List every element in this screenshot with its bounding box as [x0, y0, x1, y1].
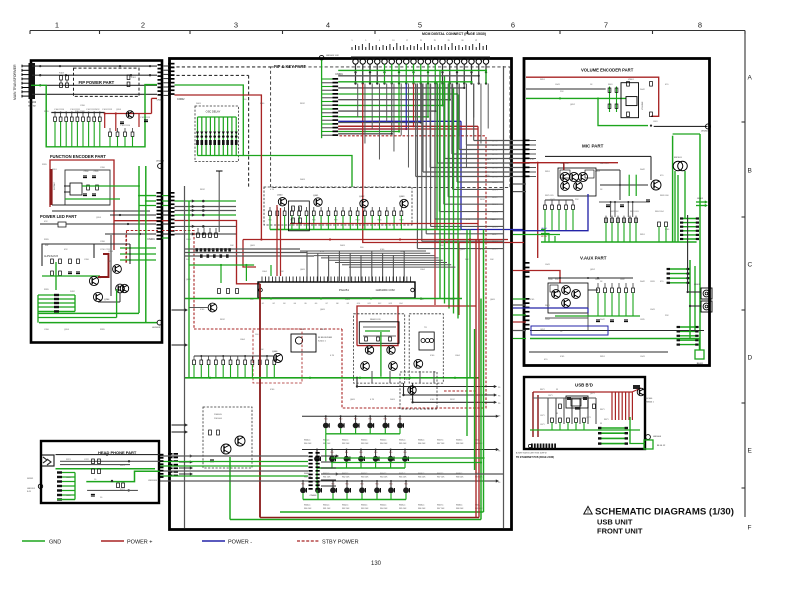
svg-text:VOLUME ENCODER PART: VOLUME ENCODER PART: [581, 68, 634, 73]
svg-text:Q606: Q606: [272, 351, 278, 353]
svg-text:R65 10K: R65 10K: [399, 443, 407, 445]
svg-text:STBY POWER: STBY POWER: [322, 540, 359, 546]
svg-text:S604-1: S604-1: [380, 440, 387, 442]
mic black bus: [545, 155, 651, 157]
svg-text:Q204: Q204: [116, 109, 122, 111]
svg-text:POWER -: POWER -: [228, 540, 252, 546]
svg-text:R626 C66: R626 C66: [660, 195, 669, 197]
svg-text:USB UNIT: USB UNIT: [597, 518, 633, 527]
function encoder red frame: [50, 160, 114, 250]
svg-text:FRONT UNIT: FRONT UNIT: [597, 527, 643, 536]
vaux green array lower: [677, 326, 699, 328]
cn603 connector duo: [309, 452, 313, 454]
svg-text:Q605: Q605: [490, 299, 496, 301]
encoder body dark red bar: [50, 169, 53, 205]
volume green wires: [526, 97, 626, 99]
svg-text:LED204: LED204: [156, 161, 165, 163]
red dashed box around ir: [253, 329, 302, 383]
svg-text:BE611: BE611: [697, 363, 704, 365]
svg-text:ROTARY: ROTARY: [53, 181, 56, 190]
svg-text:R205: R205: [100, 329, 106, 331]
svg-text:R612: R612: [480, 199, 486, 201]
green wire volume to right border: [673, 133, 700, 135]
main unit box border: [170, 59, 512, 530]
svg-text:Q605: Q605: [350, 399, 356, 401]
connector CN102 main transformer: [29, 63, 36, 99]
transistor pair Q201 Q202: [113, 265, 122, 274]
svg-text:10K: 10K: [440, 245, 444, 247]
mic resistor array stack: [680, 218, 699, 220]
svg-text:A 9099 9109G 1499 T93X 1099 W: A 9099 9109G 1499 T93X 1099 W: [516, 452, 547, 455]
svg-text:IR 06 12: IR 06 12: [657, 445, 666, 447]
long red rail bottom: [260, 517, 479, 519]
mic green corner wires bottom left: [541, 230, 545, 243]
gray vertical below osc: [218, 171, 220, 232]
svg-text:33: 33: [600, 423, 602, 425]
svg-text:D: D: [748, 355, 753, 362]
svg-text:R205: R205: [42, 164, 48, 166]
svg-text:VR601: VR601: [628, 79, 634, 81]
wire bundle to fip bar: [306, 251, 308, 281]
svg-text:R103: R103: [59, 73, 65, 75]
red bus upper key row: [290, 223, 478, 225]
resistor forest under key transistors: [269, 207, 271, 211]
svg-text:R64 10K: R64 10K: [380, 443, 388, 445]
svg-text:LED605 1-W: LED605 1-W: [326, 55, 339, 57]
svg-text:C635: C635: [640, 319, 645, 321]
svg-text:S603-1: S603-1: [361, 505, 368, 507]
vaux green array: [667, 268, 690, 270]
svg-text:R612: R612: [450, 399, 456, 401]
svg-text:2SB605: 2SB605: [214, 414, 223, 416]
headphone black wires top: [56, 454, 161, 456]
svg-text:Q605: Q605: [186, 279, 192, 281]
svg-text:OSC DELAY: OSC DELAY: [206, 110, 221, 114]
short drops from connector: [355, 64, 357, 83]
svg-text:Q671: Q671: [590, 393, 595, 395]
headphone resistors mid: [92, 459, 95, 464]
svg-text:TR: TR: [424, 327, 427, 329]
usb ic cluster: [566, 396, 588, 408]
svg-text:B-W B2: B-W B2: [28, 105, 36, 107]
svg-text:G5: G5: [304, 303, 306, 305]
svg-text:R60: R60: [375, 484, 378, 486]
svg-text:R60: R60: [330, 452, 333, 454]
bus left box to main box: [162, 195, 171, 197]
comb above top connector: [351, 47, 353, 50]
svg-text:R615: R615: [377, 220, 381, 222]
fip power resistor pairs left: [60, 76, 63, 81]
black wire to jacks: [687, 215, 689, 292]
svg-text:LED601: LED601: [701, 131, 710, 133]
svg-text:1K: 1K: [590, 84, 593, 86]
svg-text:Q605: Q605: [460, 249, 466, 251]
svg-text:P6: P6: [498, 482, 500, 484]
svg-text:R651: R651: [640, 234, 646, 236]
svg-text:G3: G3: [283, 303, 285, 305]
crossing red blue mid: [508, 242, 524, 244]
svg-text:LED201: LED201: [27, 488, 36, 490]
svg-text:CN603: CN603: [310, 495, 318, 497]
svg-text:Q605: Q605: [250, 245, 256, 247]
svg-text:17: 17: [406, 40, 408, 42]
headphone green main: [56, 468, 156, 470]
svg-text:R60: R60: [268, 220, 271, 222]
svg-text:SCHEMATIC DIAGRAMS (1/30): SCHEMATIC DIAGRAMS (1/30): [595, 507, 734, 518]
svg-text:FIP POWER PART: FIP POWER PART: [79, 80, 115, 85]
usb green cap: [644, 440, 653, 449]
svg-text:GND: GND: [49, 540, 61, 546]
blue long vertical and crossing: [461, 121, 524, 229]
svg-text:C205: C205: [94, 171, 100, 173]
svg-text:29: 29: [448, 40, 450, 42]
svg-text:S608-1: S608-1: [456, 440, 463, 442]
svg-text:47K: 47K: [96, 109, 100, 111]
headphone bottom wire: [87, 489, 138, 491]
svg-text:S600-1: S600-1: [304, 505, 311, 507]
svg-text:D603: D603: [486, 159, 492, 161]
caps under red bus: [120, 121, 124, 123]
svg-text:R60 10K: R60 10K: [304, 508, 312, 510]
svg-text:R68 10K: R68 10K: [456, 476, 464, 478]
svg-text:P6: P6: [498, 416, 500, 418]
svg-text:4: 4: [326, 21, 330, 30]
svg-text:REMOCON: REMOCON: [370, 319, 381, 321]
transistor Q607 lower left: [208, 303, 217, 312]
stby dashed loop mid: [194, 328, 342, 330]
crossing stubs band mic: [513, 162, 526, 164]
fan above fip bar: [300, 250, 426, 252]
usb green array stack: [598, 427, 628, 429]
svg-text:D603: D603: [345, 299, 351, 301]
green drop from volume part: [672, 136, 674, 242]
stby dashed into main box: [171, 231, 194, 330]
svg-text:R201: R201: [52, 169, 58, 171]
top connector circles: [353, 59, 358, 64]
green stubs CN601: [322, 78, 333, 80]
svg-text:10K: 10K: [465, 259, 469, 261]
left unit box border: [31, 61, 162, 343]
svg-text:R65 10K: R65 10K: [399, 476, 407, 478]
svg-text:D642: D642: [640, 169, 646, 171]
svg-text:Q204: Q204: [108, 251, 114, 253]
svg-text:R63 10K: R63 10K: [361, 443, 369, 445]
vaux black wires: [548, 277, 633, 279]
svg-text:R60: R60: [331, 484, 334, 486]
svg-text:R60: R60: [369, 419, 372, 421]
svg-text:VOLUME: VOLUME: [642, 101, 644, 110]
svg-text:D642: D642: [640, 281, 646, 283]
svg-text:D603: D603: [340, 245, 346, 247]
svg-text:R205: R205: [44, 111, 50, 113]
svg-text:R60: R60: [374, 452, 377, 454]
svg-text:R221: R221: [66, 459, 72, 461]
svg-text:IC60: IC60: [430, 355, 435, 357]
key transistor dashed box: [264, 187, 412, 225]
headphone jack symbol: [42, 455, 54, 466]
svg-text:R621 C61: R621 C61: [600, 163, 609, 165]
connector CN605 left edge bottom: [168, 453, 173, 455]
svg-text:R67 10K: R67 10K: [437, 476, 445, 478]
svg-text:R60: R60: [345, 452, 348, 454]
vaux extra caps: [596, 319, 600, 321]
svg-text:1K: 1K: [600, 281, 603, 283]
mic green bus: [541, 241, 697, 243]
mic right resistors: [658, 222, 661, 227]
usb bottom connector: [531, 444, 533, 449]
svg-text:2SB606 1: 2SB606 1: [645, 402, 655, 404]
svg-text:R67 10K: R67 10K: [437, 443, 445, 445]
svg-text:D603: D603: [196, 103, 202, 105]
green wires cn603 to risers: [331, 457, 484, 459]
vaux resistor cols: [597, 283, 599, 288]
usb green riser right: [630, 417, 645, 444]
red bus fip: [105, 113, 152, 115]
svg-text:S605-1: S605-1: [399, 440, 406, 442]
svg-text:R625 C65: R625 C65: [545, 195, 554, 197]
LED203: [157, 320, 162, 325]
svg-text:Q652: Q652: [595, 171, 601, 173]
mic ic cluster: [558, 168, 596, 196]
svg-text:R60: R60: [354, 419, 357, 421]
resistor forest fip mid: [54, 113, 56, 118]
svg-text:R612: R612: [355, 220, 359, 222]
vaux green risers right: [689, 260, 691, 339]
red box remocon: [357, 306, 476, 346]
svg-text:IC60: IC60: [200, 309, 205, 311]
svg-text:4.7K: 4.7K: [330, 355, 335, 357]
svg-text:MIC601: MIC601: [674, 157, 682, 159]
svg-text:Q601: Q601: [313, 195, 319, 197]
red verticals into bar region: [276, 205, 278, 276]
svg-text:10K: 10K: [490, 259, 494, 261]
green wire left edge to osc area: [175, 85, 353, 187]
svg-text:R60: R60: [404, 484, 407, 486]
svg-text:Q671: Q671: [586, 417, 591, 419]
red bus key row: [243, 239, 508, 241]
svg-text:A: A: [748, 75, 753, 82]
svg-text:10K: 10K: [230, 245, 234, 247]
green vertical from LED605: [321, 60, 323, 138]
svg-text:22K: 22K: [665, 315, 669, 317]
red riser up from remocon top: [475, 240, 477, 307]
svg-text:33: 33: [461, 40, 463, 42]
svg-text:13: 13: [392, 40, 394, 42]
svg-text:C604: C604: [240, 339, 246, 341]
mic transistor Q612: [651, 180, 661, 190]
svg-text:S604-1: S604-1: [380, 505, 387, 507]
mic extra resistors left: [544, 200, 546, 205]
legend GND: [22, 540, 45, 542]
long green rails bottom left: [38, 312, 139, 314]
remocon receiver block: [359, 322, 399, 344]
black bus mid fip: [51, 112, 104, 114]
svg-text:R612: R612: [300, 103, 306, 105]
svg-text:R61 10K: R61 10K: [323, 443, 331, 445]
svg-text:R612: R612: [200, 189, 206, 191]
svg-text:100: 100: [243, 99, 247, 101]
svg-text:G4: G4: [294, 303, 296, 305]
dashed frame fip key part: [271, 67, 510, 187]
svg-text:G6: G6: [315, 303, 317, 305]
vaux black bus lower: [530, 330, 704, 332]
LED605 top border circle: [319, 55, 324, 60]
svg-text:33: 33: [556, 413, 558, 415]
right box left edge pin stubs band1: [525, 140, 530, 142]
svg-text:R60: R60: [301, 484, 304, 486]
red vertical mid right: [434, 129, 436, 305]
wire top bus from CN102: [32, 65, 157, 67]
svg-text:G14: G14: [399, 303, 402, 305]
resistor pairs near dark red elbow: [218, 289, 221, 294]
headphone green ladder: [57, 472, 75, 474]
usb gray verticals: [547, 398, 549, 424]
svg-text:1: 1: [55, 21, 59, 30]
svg-text:R60: R60: [403, 452, 406, 454]
mic blue wires: [541, 194, 588, 231]
transistor Q606: [273, 353, 282, 362]
svg-text:C604: C604: [186, 239, 192, 241]
green cross wires bottom cluster: [42, 275, 100, 277]
svg-text:CN401: CN401: [147, 238, 155, 241]
mic black branch wires: [545, 199, 573, 201]
svg-text:R205: R205: [44, 239, 50, 241]
svg-text:MCM DIGITAL CONNECT (PAGE 15/3: MCM DIGITAL CONNECT (PAGE 15/30): [422, 32, 486, 36]
svg-text:Q204: Q204: [64, 329, 70, 331]
title warning triangle: [584, 506, 592, 514]
svg-text:C104 R114: C104 R114: [120, 125, 131, 127]
grid ruler top: [30, 30, 745, 32]
svg-text:G1: G1: [262, 303, 264, 305]
black link wires bottom left box: [94, 243, 130, 245]
green feeds to CN401: [138, 166, 140, 313]
led and resistor: [58, 222, 66, 227]
green black fan CN601 to connector columns: [338, 69, 486, 71]
svg-text:IC65: IC65: [530, 159, 535, 161]
svg-text:R66: R66: [312, 220, 315, 222]
long green rail bottom 1: [280, 511, 484, 513]
svg-text:R671: R671: [600, 409, 605, 411]
svg-text:C604: C604: [262, 271, 268, 273]
wire crossing left top connectors: [164, 65, 169, 67]
svg-text:130: 130: [371, 561, 382, 567]
svg-text:IC65: IC65: [665, 229, 670, 231]
red stby crossing left to main: [162, 230, 171, 232]
bottom components near dashed box: [209, 430, 212, 435]
svg-text:R60: R60: [398, 419, 401, 421]
svg-text:SW: SW: [45, 245, 48, 247]
mic resistor columns: [605, 216, 607, 228]
svg-text:C631: C631: [595, 279, 600, 281]
svg-text:C: C: [748, 262, 753, 269]
mic red rail: [526, 162, 618, 164]
wires to CN401: [110, 214, 156, 216]
svg-text:P6: P6: [498, 403, 500, 405]
mic dark red stub: [563, 163, 565, 170]
headphone right border pins: [160, 454, 164, 456]
svg-text:4.7K: 4.7K: [480, 249, 485, 251]
svg-text:1K: 1K: [560, 331, 563, 333]
svg-text:25: 25: [434, 40, 436, 42]
key switch row 1: [302, 415, 497, 417]
svg-text:R651: R651: [540, 79, 546, 81]
headphone link wires: [160, 455, 308, 457]
green bus y265: [189, 264, 254, 266]
svg-text:C634: C634: [545, 319, 550, 321]
fip display bar PGA B1: [258, 282, 415, 298]
svg-text:S605-1: S605-1: [399, 505, 406, 507]
svg-text:100: 100: [410, 399, 414, 401]
svg-text:2: 2: [141, 21, 145, 30]
svg-text:R623 C63: R623 C63: [630, 211, 639, 213]
svg-text:4.7K: 4.7K: [466, 219, 471, 221]
transistor Q602: [360, 199, 368, 207]
svg-text:S606-1: S606-1: [418, 440, 425, 442]
svg-text:C671: C671: [540, 424, 545, 426]
svg-text:R63 10K: R63 10K: [361, 508, 369, 510]
svg-text:22K: 22K: [575, 199, 579, 201]
svg-text:G7: G7: [325, 303, 327, 305]
osc delay green diode lines: [197, 117, 199, 156]
svg-text:R64 10K: R64 10K: [380, 508, 388, 510]
svg-text:R62 10K: R62 10K: [342, 443, 350, 445]
remocon lower transistors: [361, 362, 370, 371]
svg-text:Q603: Q603: [399, 196, 405, 198]
svg-text:1H46106C COM: 1H46106C COM: [375, 288, 394, 292]
green vertical long left: [188, 201, 190, 378]
gray vertical interior left: [184, 186, 186, 528]
right box left edge pins band2: [525, 262, 530, 264]
svg-text:R62 10K: R62 10K: [342, 476, 350, 478]
svg-text:C641: C641: [545, 264, 551, 266]
svg-text:Q204: Q204: [104, 299, 110, 301]
svg-text:R671: R671: [540, 389, 545, 391]
red pair horizontals: [338, 125, 478, 127]
black fan lower right arrows: [357, 386, 494, 388]
key switch row 3: [302, 480, 497, 482]
svg-text:B-W: B-W: [27, 491, 31, 493]
arrow stubs left edge above cn605: [172, 424, 187, 426]
svg-text:2SC606: 2SC606: [645, 398, 653, 400]
vaux bottom black bus outer: [529, 351, 668, 353]
svg-text:MIC 5V: MIC 5V: [541, 236, 548, 238]
svg-text:G12: G12: [378, 303, 381, 305]
svg-text:D642: D642: [600, 319, 606, 321]
volume green joint dot: [559, 97, 561, 99]
LED204: [158, 164, 163, 169]
green vertical inside remocon box: [380, 332, 382, 377]
svg-text:R62 10K: R62 10K: [342, 508, 350, 510]
svg-text:S603-1: S603-1: [361, 440, 368, 442]
volume red loop: [526, 77, 659, 116]
svg-text:8: 8: [698, 21, 702, 30]
svg-text:R624 C64: R624 C64: [655, 211, 664, 213]
svg-text:470: 470: [660, 175, 664, 177]
svg-text:C604: C604: [455, 355, 461, 357]
resistor forest right group: [109, 128, 111, 132]
svg-text:100: 100: [250, 299, 254, 301]
svg-text:LED604: LED604: [653, 436, 662, 438]
svg-text:C630: C630: [548, 279, 553, 281]
svg-text:ALPS/SAN B: ALPS/SAN B: [44, 255, 58, 258]
svg-text:47K: 47K: [44, 221, 48, 223]
LED604: [646, 435, 651, 440]
svg-text:R60: R60: [359, 452, 362, 454]
svg-text:10K: 10K: [280, 271, 284, 273]
svg-text:R671: R671: [604, 419, 609, 421]
svg-text:Q204: Q204: [96, 217, 102, 219]
svg-text:Q605: Q605: [300, 269, 306, 271]
